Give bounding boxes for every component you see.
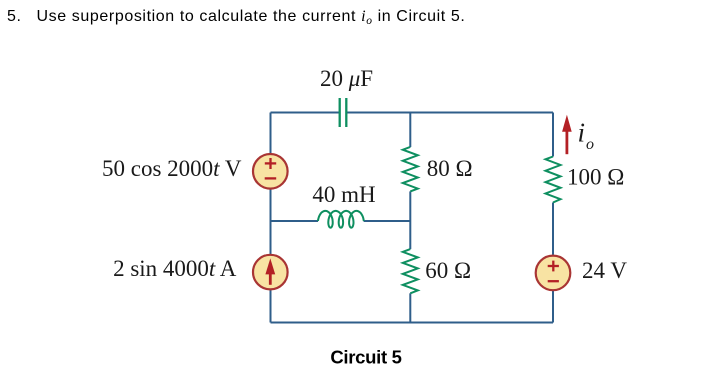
inductor L1 value label 40 mH bbox=[312, 182, 375, 207]
current source I1 circle bbox=[253, 255, 288, 290]
svg-text:o: o bbox=[586, 136, 594, 153]
svg-text:Use superposition to calculate: Use superposition to calculate the curre… bbox=[37, 8, 466, 27]
voltage source V1 circle bbox=[253, 154, 288, 189]
svg-text:60 Ω: 60 Ω bbox=[425, 258, 471, 283]
wire: bottom horizontal bbox=[271, 322, 554, 324]
resistor R3 value label 100 ohm bbox=[567, 165, 624, 190]
capacitor value label 20 uF bbox=[320, 66, 373, 91]
caption Circuit 5 bbox=[330, 347, 401, 368]
wire: left vertical from voltage source V1 bottom to current source I1 top bbox=[270, 189, 272, 255]
voltage source V24 label 24 V bbox=[582, 258, 627, 283]
wire: right vertical from voltage source V24 bottom to bottom wire bbox=[552, 291, 554, 323]
svg-text:20 μF: 20 μF bbox=[320, 66, 373, 91]
inductor L1 40mH coil bbox=[318, 211, 364, 228]
wire: top horizontal from capacitor right plate to top-right corner bbox=[347, 112, 553, 114]
svg-text:Circuit 5: Circuit 5 bbox=[330, 347, 401, 368]
wire: middle vertical bottom (resistor R60 to bottom wire) bbox=[409, 293, 411, 322]
svg-text:i: i bbox=[578, 118, 586, 148]
svg-text:24 V: 24 V bbox=[582, 258, 627, 283]
resistor R3 100 ohm zigzag bbox=[546, 157, 561, 203]
wire: left vertical from top-left corner to voltage source V1 top bbox=[270, 113, 272, 154]
voltage source V24 circle bbox=[536, 256, 571, 291]
wire: middle horizontal right segment (inductor to node B) bbox=[364, 220, 411, 222]
svg-text:5.: 5. bbox=[7, 8, 22, 25]
current label i_o bbox=[578, 118, 595, 154]
wire: middle horizontal left segment (node A to inductor) bbox=[271, 220, 319, 222]
resistor R1 80 ohm zigzag bbox=[403, 147, 418, 192]
wire: right vertical between resistor R100 and voltage source V24 bbox=[552, 203, 554, 255]
svg-text:100 Ω: 100 Ω bbox=[567, 165, 624, 190]
wire: right vertical top (top-right corner to resistor R100 top) bbox=[552, 113, 554, 157]
voltage source V24 plus sign bbox=[548, 261, 559, 272]
wire: middle vertical between resistor R80 and resistor R60 bbox=[409, 191, 411, 249]
current source I1 label 2 sin 4000t A bbox=[113, 256, 237, 281]
resistor R2 60 ohm zigzag bbox=[403, 249, 418, 293]
voltage source V1 minus sign bbox=[265, 177, 277, 179]
title text bbox=[7, 8, 465, 27]
svg-text:2 sin 4000t A: 2 sin 4000t A bbox=[113, 256, 237, 281]
current source I1 arrow bbox=[265, 258, 275, 284]
capacitor C1 20uF plates bbox=[340, 98, 347, 127]
svg-text:80 Ω: 80 Ω bbox=[427, 156, 473, 181]
wire: left vertical from current source I1 bottom to bottom-left corner bbox=[270, 290, 272, 323]
voltage source V1 label 50 cos 2000t V bbox=[102, 156, 242, 181]
current arrow i_o bbox=[562, 115, 572, 154]
resistor R1 value label 80 ohm bbox=[427, 156, 473, 181]
svg-text:50 cos 2000t V: 50 cos 2000t V bbox=[102, 156, 242, 181]
wire: middle vertical top (top wire to resistor R80 top) bbox=[409, 113, 411, 148]
voltage source V24 minus sign bbox=[548, 280, 559, 282]
resistor R2 value label 60 ohm bbox=[425, 258, 471, 283]
svg-text:40 mH: 40 mH bbox=[312, 182, 375, 207]
voltage source V1 plus sign bbox=[265, 158, 276, 169]
wire: top left horizontal (node top-left to capacitor left plate) bbox=[271, 112, 340, 114]
